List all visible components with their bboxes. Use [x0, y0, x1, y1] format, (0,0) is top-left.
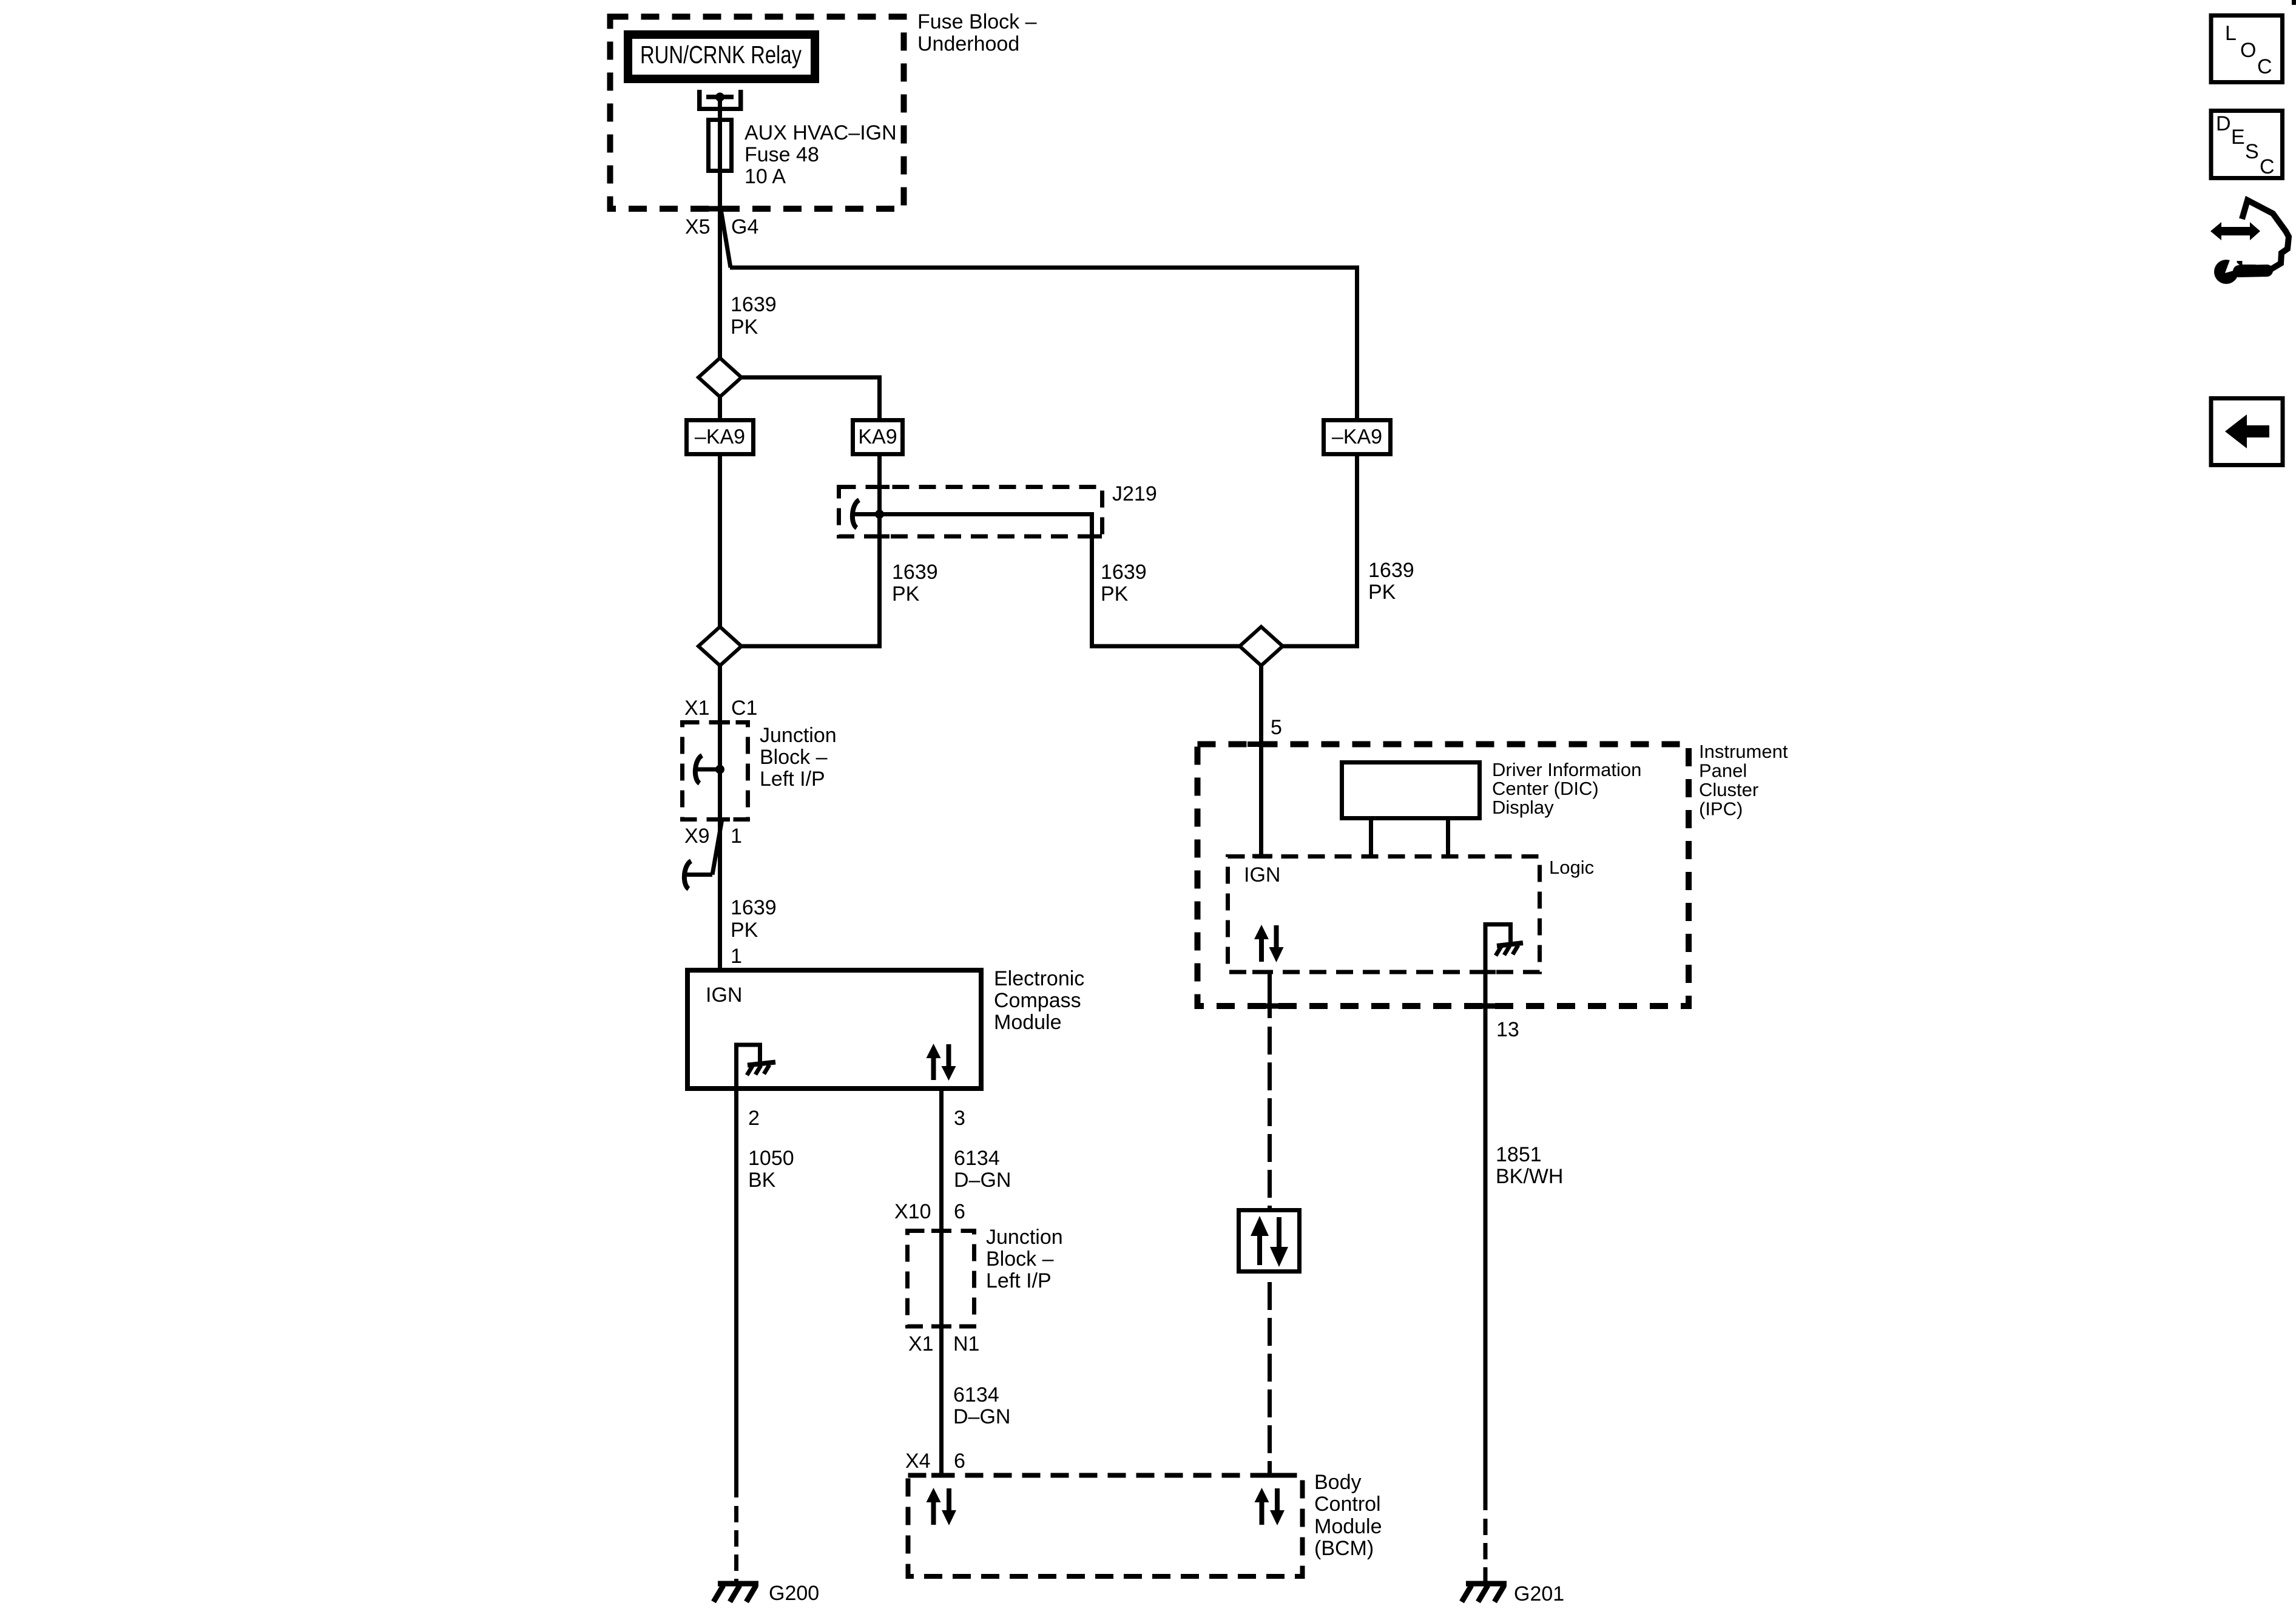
junction block - left I/P dashed box 2 (X10/6 to X1/N1): [908, 1231, 974, 1327]
svg-text:D–GN: D–GN: [953, 1405, 1010, 1428]
svg-text:Instrument: Instrument: [1699, 741, 1788, 762]
BCM body control module dashed box: [908, 1476, 1303, 1577]
relay coil pin bracket: [697, 90, 743, 111]
icon LOC box: [2211, 16, 2283, 83]
svg-text:Module: Module: [1314, 1515, 1382, 1538]
svg-text:S: S: [2245, 140, 2259, 163]
chassis ground hatch in IPC logic: [1496, 943, 1523, 956]
svg-text:E: E: [2231, 126, 2245, 149]
svg-text:1639: 1639: [731, 896, 777, 919]
svg-text:1: 1: [731, 825, 742, 848]
svg-text:IGN: IGN: [1244, 863, 1280, 886]
svg-text:1639: 1639: [892, 561, 938, 584]
svg-text:AUX HVAC–IGN: AUX HVAC–IGN: [745, 121, 897, 144]
svg-text:X10: X10: [894, 1200, 931, 1223]
bidirectional arrows in BCM (left, pin X4-6): [927, 1488, 957, 1525]
fuse F48 AUX HVAC-IGN body: [709, 120, 732, 171]
tick dash where wire 3 enters BCM top: [931, 1473, 951, 1478]
svg-text:Cluster: Cluster: [1699, 779, 1758, 800]
tick dash where wire crosses fuse block bottom edge: [703, 206, 737, 212]
svg-text:Block –: Block –: [760, 746, 828, 769]
svg-text:Compass: Compass: [994, 989, 1081, 1012]
boxed bidirectional arrows between IPC and BCM: [1239, 1210, 1300, 1272]
svg-text:Left I/P: Left I/P: [760, 768, 825, 791]
svg-text:N1: N1: [953, 1332, 979, 1355]
svg-text:6134: 6134: [953, 1383, 999, 1406]
wire: dashed end of 1851 BK/WH to G201: [1484, 1519, 1488, 1581]
wire: DIC display left leg: [1369, 820, 1373, 854]
wire: J219 splice output to right diamond (1639 PK): [880, 515, 1240, 647]
svg-text:G200: G200: [769, 1582, 819, 1605]
wire: G4 diagonal branch off fuse output: [721, 209, 731, 268]
bidirectional arrows in compass module: [927, 1044, 956, 1081]
svg-text:KA9: KA9: [858, 425, 897, 448]
svg-text:BK: BK: [748, 1169, 776, 1192]
tick dash where wire 5 crosses IPC top edge: [1248, 741, 1275, 747]
svg-text:Electronic: Electronic: [994, 967, 1084, 990]
svg-text:1: 1: [731, 945, 742, 968]
svg-text:(BCM): (BCM): [1314, 1537, 1374, 1560]
icon back arrow box: [2211, 399, 2283, 465]
svg-text:X5: X5: [685, 215, 711, 238]
connector X9 hook terminal with diagonal lead: [712, 819, 722, 875]
wire: main ignition feed from relay through fuse down to compass module pin 1 (circuit 1639 PK): [718, 97, 722, 970]
tick dash where wire 5 meets logic box top edge: [1252, 854, 1272, 859]
junction dot in junction block 1: [715, 765, 724, 774]
chassis ground hatch in compass module: [747, 1062, 775, 1076]
icon wrench: [2214, 257, 2267, 284]
svg-text:Driver Information: Driver Information: [1492, 759, 1641, 780]
connector diamond 1 (X5/G4 splice): [698, 358, 741, 397]
svg-text:PK: PK: [1368, 581, 1396, 604]
wire: IPC logic serial data stub (solid): [1268, 972, 1272, 1018]
wire: pin 5 feed from right diamond into IPC logic (1639 PK): [1259, 666, 1263, 856]
svg-text:L: L: [2225, 22, 2237, 45]
svg-text:5: 5: [1271, 716, 1282, 739]
svg-text:6: 6: [954, 1200, 965, 1223]
junction dot at relay pin: [715, 93, 724, 102]
wire: top horizontal run from fuse X5/G4 to right -KA9: [730, 268, 1357, 420]
svg-text:6134: 6134: [954, 1147, 1000, 1170]
svg-text:RUN/CRNK Relay: RUN/CRNK Relay: [640, 40, 802, 68]
wire: KA9 box down through J219 to left diamond 2: [741, 454, 880, 646]
svg-text:Body: Body: [1314, 1471, 1362, 1494]
svg-text:G201: G201: [1514, 1582, 1564, 1605]
icon connector outline: [2242, 200, 2289, 274]
svg-text:G4: G4: [731, 215, 758, 238]
relay pin bar: [706, 95, 734, 100]
J219 splice pack dashed box: [839, 487, 1102, 537]
svg-text:Panel: Panel: [1699, 760, 1747, 781]
svg-text:1639: 1639: [731, 293, 777, 316]
svg-text:13: 13: [1496, 1018, 1519, 1041]
connector diamond 2 (X1/C1 splice): [698, 627, 741, 666]
svg-text:J219: J219: [1112, 482, 1157, 505]
svg-text:Display: Display: [1492, 797, 1554, 818]
svg-text:1639: 1639: [1368, 559, 1414, 582]
svg-text:PK: PK: [731, 919, 758, 942]
module Electronic Compass Module box: [687, 970, 981, 1089]
svg-text:2: 2: [748, 1107, 760, 1130]
svg-text:BK/WH: BK/WH: [1496, 1165, 1563, 1188]
wire: IPC ground pin 13 (1851 BK/WH) solid run: [1484, 927, 1488, 1510]
svg-text:–KA9: –KA9: [1332, 425, 1382, 448]
svg-text:PK: PK: [892, 582, 920, 606]
relay RUN/CRNK Relay box: [628, 35, 815, 79]
junction block - left I/P dashed box 1 (X1/C1 to X9/1): [683, 723, 748, 820]
svg-text:C: C: [2257, 55, 2272, 78]
svg-text:10 A: 10 A: [745, 165, 786, 188]
tick dash where wire 3 crosses junction block 2 top: [931, 1229, 951, 1233]
tick dash where ground wire crosses logic bottom edge: [1476, 970, 1496, 974]
tick dash where main wire crosses junction block 1 top: [710, 720, 730, 724]
svg-text:D: D: [2216, 112, 2231, 135]
svg-text:D–GN: D–GN: [954, 1169, 1011, 1192]
svg-text:X1: X1: [908, 1332, 934, 1355]
svg-text:6: 6: [954, 1450, 965, 1473]
IPC logic dashed box: [1228, 857, 1540, 973]
tick dash where logic stub crosses IPC bottom edge: [1256, 1004, 1283, 1009]
tick dash where main wire crosses junction block 1 bottom: [710, 817, 730, 822]
svg-text:Block –: Block –: [986, 1247, 1054, 1271]
connector hook terminal in J219: [854, 512, 879, 516]
fuse block - underhood dashed box: [610, 17, 904, 209]
tick dash where KA9 wire crosses J219 top: [869, 485, 890, 489]
module DIC display box: [1342, 763, 1480, 819]
svg-text:Underhood: Underhood: [917, 33, 1019, 56]
svg-text:X4: X4: [905, 1450, 931, 1473]
wire: dashed serial data from IPC to boxed arrows: [1268, 1027, 1272, 1208]
tick dash where wire 3 crosses junction block 2 bottom: [931, 1325, 951, 1329]
internal ground lead in IPC logic: [1485, 925, 1511, 944]
wire: dashed end of 1050 BK to G200: [734, 1506, 738, 1581]
wire: dashed serial data from boxed arrows to BCM: [1268, 1282, 1272, 1473]
svg-text:Junction: Junction: [760, 724, 837, 747]
wire: DIC display right leg: [1446, 820, 1450, 854]
svg-text:Center (DIC): Center (DIC): [1492, 778, 1599, 799]
tick dash where KA9 wire crosses J219 bottom: [869, 535, 890, 539]
bidirectional arrows in IPC logic: [1254, 925, 1284, 962]
internal ground lead in compass module: [737, 1045, 760, 1089]
svg-text:Logic: Logic: [1549, 857, 1594, 878]
wire: right -KA9 down to right diamond: [1283, 454, 1357, 646]
svg-text:IGN: IGN: [706, 984, 742, 1007]
svg-text:C: C: [2260, 155, 2275, 178]
IPC instrument panel cluster dashed box: [1198, 744, 1689, 1007]
svg-text:1639: 1639: [1101, 561, 1147, 584]
svg-text:Left I/P: Left I/P: [986, 1269, 1052, 1292]
svg-text:Module: Module: [994, 1011, 1062, 1034]
ground G200 chassis symbol: [714, 1584, 758, 1602]
wire: compass module pin 2 ground (1050 BK) solid run: [734, 1089, 738, 1497]
scan artifact top right corner: [2292, 0, 2296, 5]
bidirectional arrows in BCM (right, serial data): [1255, 1488, 1285, 1525]
svg-text:Fuse Block –: Fuse Block –: [917, 10, 1037, 33]
icon DESC box: [2211, 111, 2283, 178]
junction dot J219 splice: [875, 510, 884, 519]
svg-text:X1: X1: [684, 697, 710, 720]
svg-text:–KA9: –KA9: [695, 425, 745, 448]
svg-text:O: O: [2240, 39, 2256, 62]
tick dash where ground wire crosses IPC bottom edge: [1472, 1004, 1499, 1009]
svg-text:PK: PK: [731, 316, 758, 339]
tick dash where J219 output wire crosses J219 bottom: [1082, 535, 1102, 539]
tick dash where logic stub crosses logic bottom edge: [1252, 970, 1272, 974]
svg-text:Control: Control: [1314, 1493, 1381, 1516]
net flag -KA9 (right): [1324, 420, 1391, 454]
svg-text:3: 3: [954, 1107, 965, 1130]
svg-text:1851: 1851: [1496, 1143, 1542, 1166]
net flag -KA9 (left): [687, 420, 754, 454]
ground G201 chassis symbol: [1462, 1584, 1507, 1602]
svg-text:C1: C1: [731, 697, 757, 720]
connector hook terminal in junction block 1: [697, 768, 720, 772]
svg-text:Junction: Junction: [986, 1226, 1063, 1249]
connector diamond 3 (IPC pin 5 splice): [1240, 627, 1283, 666]
svg-text:Fuse 48: Fuse 48: [745, 143, 819, 166]
wire: branch from left diamond to KA9 box: [741, 377, 880, 420]
wire: compass module pin 3 data (6134 D-GN) to BCM pin X4-6: [939, 1089, 944, 1477]
svg-text:PK: PK: [1101, 582, 1129, 606]
svg-text:(IPC): (IPC): [1699, 798, 1743, 820]
icon connector-test double arrow: [2210, 222, 2260, 240]
svg-text:1050: 1050: [748, 1147, 794, 1170]
net flag KA9 (middle): [853, 420, 903, 454]
svg-text:X9: X9: [684, 825, 710, 848]
tick dash where dashed data wire enters BCM top: [1260, 1473, 1280, 1478]
